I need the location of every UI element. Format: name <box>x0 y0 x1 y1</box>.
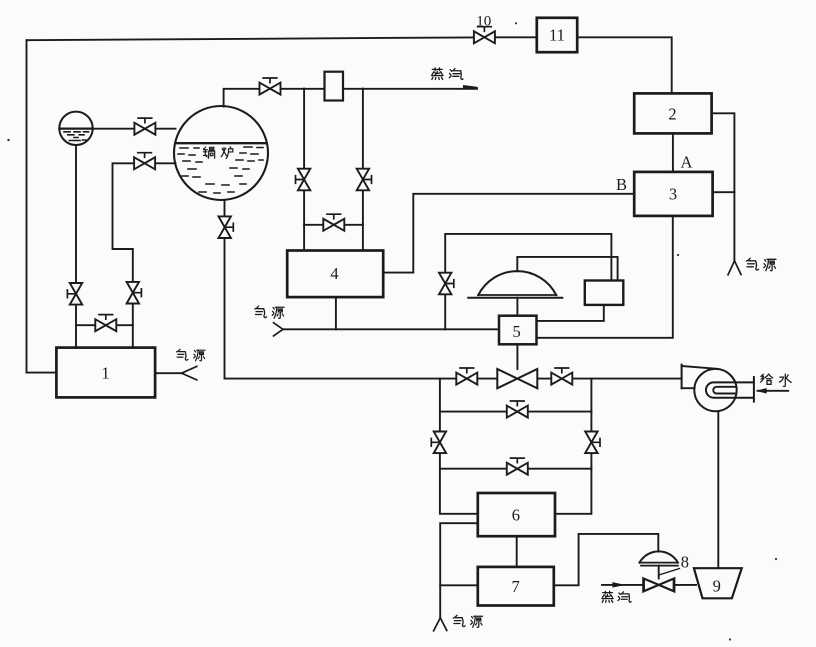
valve 8 body <box>644 578 674 591</box>
wire valve10 to box 11 <box>474 36 538 38</box>
wire left border vertical <box>26 40 28 372</box>
wire orifice tap left <box>303 89 305 251</box>
wire bypass lower <box>440 468 592 470</box>
valve gauge-boiler <box>134 118 155 135</box>
svg-text:3: 3 <box>669 185 677 204</box>
valve 10 <box>474 27 495 44</box>
boiler shell <box>174 106 268 200</box>
label qiyuan box1 <box>177 349 205 361</box>
pump suction flange <box>681 365 683 389</box>
air source fork at box1 <box>182 366 197 380</box>
wire gauge bottom to box1 <box>75 145 77 348</box>
pump casing <box>694 369 736 411</box>
controller box 7 <box>478 567 554 606</box>
wire feedwater main line <box>225 378 682 380</box>
label zhengqi top <box>432 68 464 79</box>
svg-text:1: 1 <box>101 364 109 383</box>
svg-text:A: A <box>681 153 693 172</box>
wire manifold left drop <box>440 379 478 514</box>
deaerator pot 9 <box>694 568 742 598</box>
valve main left <box>456 368 477 385</box>
svg-text:11: 11 <box>549 26 565 45</box>
wire gauge to valve to boiler <box>93 128 176 130</box>
pump suction taper bottom <box>682 387 695 389</box>
valve manifold right <box>585 432 600 454</box>
wire air to box6 <box>440 523 478 618</box>
boiler label guolu <box>203 147 232 159</box>
wire air line to box5 <box>283 328 499 330</box>
control valve main <box>497 369 537 388</box>
wire box3 right to riser <box>713 191 735 193</box>
svg-text:4: 4 <box>330 264 338 283</box>
transmitter box 4 <box>287 251 383 298</box>
instrument box 2 <box>634 93 711 133</box>
steam arrow small <box>613 583 623 587</box>
air source fork bottom <box>434 618 447 631</box>
air source fork mid <box>274 323 284 336</box>
boiler water dashes <box>178 147 263 193</box>
valve bypass lower <box>507 458 528 475</box>
actuator dome <box>478 271 556 295</box>
wire steam to valve8 <box>602 584 696 586</box>
valve bypass upper <box>507 401 528 418</box>
instrument box 3 <box>634 172 712 216</box>
valve actuator branch <box>439 273 454 295</box>
gauge water line <box>59 128 92 130</box>
wire box7 to valve8 actuator <box>554 534 659 585</box>
label 8 leader <box>660 569 680 575</box>
valve blowdown <box>219 216 234 238</box>
wire box11 to box2 top <box>577 37 672 93</box>
pump volute inner <box>713 387 735 394</box>
speck 1 <box>7 139 9 141</box>
steam arrow head <box>464 86 478 90</box>
wire actuator loop top <box>445 234 611 329</box>
wire air tee to box7 <box>440 584 478 586</box>
wire boiler blowdown drop <box>224 200 226 378</box>
svg-text:B: B <box>616 175 627 194</box>
svg-text:8: 8 <box>681 553 689 572</box>
orifice plate box <box>325 72 344 101</box>
label geishui <box>761 374 791 386</box>
valve manifold left <box>431 432 446 454</box>
wire top run to valve 10 <box>27 37 474 40</box>
wire box4 air drop <box>335 297 337 329</box>
air source fork right <box>728 261 741 275</box>
wire boiler steam outlet <box>224 89 477 107</box>
relay box <box>585 281 624 305</box>
svg-text:5: 5 <box>512 322 520 341</box>
wire dome stem <box>516 298 518 316</box>
valve equalizer box1 <box>95 315 116 332</box>
valve tap equalizer <box>323 214 344 231</box>
wire boiler lower tap to jog <box>113 163 176 347</box>
wire pump to pot9 <box>717 411 719 568</box>
svg-text:7: 7 <box>511 577 519 596</box>
svg-text:6: 6 <box>512 506 520 525</box>
wire bypass upper <box>440 411 592 413</box>
valve8 seat lines <box>640 563 678 566</box>
speck 5 <box>729 638 731 640</box>
valve tap right <box>357 169 372 191</box>
level gauge circle <box>59 112 92 145</box>
wire equalizer under gauge legs <box>76 324 133 326</box>
svg-text:10: 10 <box>476 14 491 30</box>
wire air supply riser right <box>712 113 735 261</box>
wire box5 to big valve <box>516 344 518 369</box>
instrument box 11 <box>537 18 577 52</box>
speck 4 <box>775 558 777 560</box>
label qiyuan right <box>746 258 776 271</box>
boiler water level line <box>175 142 266 144</box>
speck 2 <box>515 22 517 24</box>
pump suction taper top <box>682 366 718 369</box>
valve boiler lower tap <box>134 153 155 170</box>
label qiyuan bottom <box>453 615 482 627</box>
controller box 6 <box>478 493 555 536</box>
speck 3 <box>677 254 679 256</box>
feedwater arrow line <box>758 390 789 392</box>
wire valve8 stem <box>658 566 660 579</box>
label zhengqi bottom <box>602 591 631 602</box>
wire B line box3 to box4 <box>383 194 634 273</box>
wire box6 to box7 <box>516 536 518 567</box>
valve main right <box>551 368 572 385</box>
positioner box 5 <box>499 316 537 345</box>
feedwater arrow head <box>757 389 766 393</box>
svg-text:9: 9 <box>713 577 721 596</box>
controller box 1 <box>56 348 155 398</box>
valve steam line <box>260 78 281 95</box>
pump discharge flange <box>753 377 755 402</box>
valve on jog leg <box>127 282 142 304</box>
dome chord <box>478 294 556 296</box>
wire relay to box5 <box>537 305 604 321</box>
actuator seat line <box>468 297 562 299</box>
pump volute outer <box>706 382 754 397</box>
wire node A box2 to box3 <box>672 134 674 172</box>
wire orifice tap right <box>362 89 364 251</box>
svg-text:2: 2 <box>668 105 676 124</box>
wire dome signal <box>517 257 617 281</box>
valve on gauge leg <box>67 283 82 305</box>
wire box1 output to left border <box>27 372 57 374</box>
gauge water dashes <box>64 132 89 141</box>
label qiyuan mid <box>255 306 284 318</box>
wire box3 bottom to positioner line <box>537 216 673 338</box>
wire manifold right drop <box>555 379 591 514</box>
wire air into box1 <box>155 372 182 374</box>
valve8 dome <box>640 551 678 562</box>
valve tap left <box>296 169 311 191</box>
wire tap equalizer <box>304 224 363 226</box>
